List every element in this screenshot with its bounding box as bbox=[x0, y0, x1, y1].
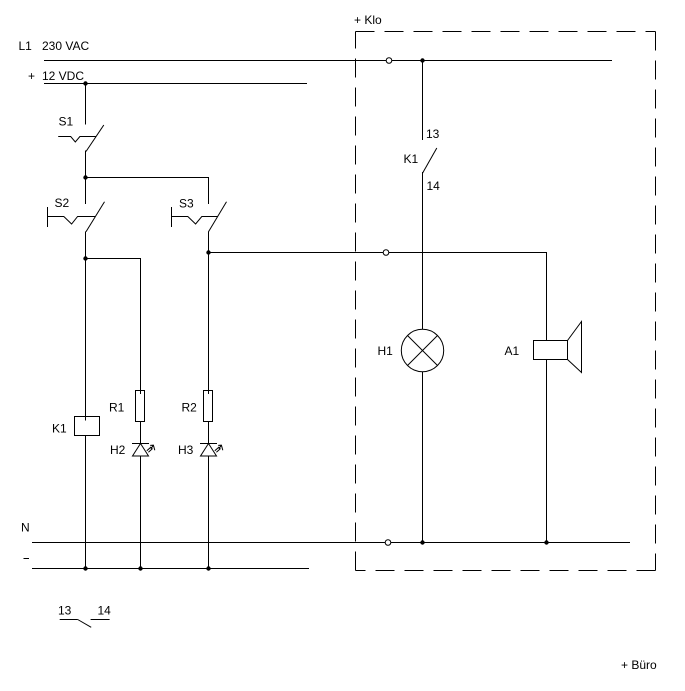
svg-text:A1: A1 bbox=[505, 344, 520, 358]
terminal circle on N in box bbox=[385, 540, 391, 546]
junction on minus bus at H2 bbox=[138, 566, 142, 570]
wire S3 junction to speaker A1 feed bbox=[209, 253, 547, 342]
junction on minus bus at H3 bbox=[206, 566, 210, 570]
terminal circle on feed wire bbox=[383, 250, 389, 256]
svg-text:+ Büro: + Büro bbox=[621, 658, 657, 672]
wire minus bus bbox=[32, 568, 309, 570]
wire K1 contact to lamp H1 bbox=[422, 172, 424, 330]
junction below S3 bbox=[206, 250, 210, 254]
svg-text:H1: H1 bbox=[378, 344, 394, 358]
wire +12VDC bus bbox=[44, 83, 307, 85]
svg-text:+: + bbox=[28, 69, 35, 83]
switch S1 (latching) bbox=[58, 115, 104, 152]
wire R1 to H2 bbox=[140, 422, 142, 444]
svg-text:K1: K1 bbox=[404, 152, 419, 166]
svg-text:14: 14 bbox=[98, 604, 112, 618]
svg-text:14: 14 bbox=[427, 179, 441, 193]
resistor R1 bbox=[109, 391, 145, 422]
wire S3 bottom down to R2 bbox=[208, 232, 210, 395]
svg-text:H2: H2 bbox=[110, 443, 126, 457]
junction on minus bus at K1 bbox=[83, 566, 87, 570]
buzzer A1 bbox=[505, 322, 582, 373]
svg-text:13: 13 bbox=[426, 127, 440, 141]
junction on N at A1 bbox=[544, 540, 548, 544]
wire H1 to N bus bbox=[422, 372, 424, 543]
relay contact K1 13-14 bbox=[404, 148, 437, 173]
junction below S1 bbox=[83, 175, 87, 179]
resistor R2 bbox=[182, 391, 213, 422]
wire N bus bbox=[32, 542, 630, 544]
svg-text:230 VAC: 230 VAC bbox=[42, 39, 89, 53]
terminal circle on L1 in box bbox=[386, 58, 392, 64]
switch S3 (latching) bbox=[172, 197, 227, 232]
svg-text:H3: H3 bbox=[178, 443, 194, 457]
junction on N at H1 bbox=[420, 540, 424, 544]
svg-text:L1: L1 bbox=[19, 39, 33, 53]
wire A1 to N bus bbox=[546, 360, 548, 543]
junction on +12VDC at S1 drop bbox=[83, 81, 87, 85]
wire H3 to minus bus bbox=[208, 456, 210, 569]
svg-text:13: 13 bbox=[58, 604, 72, 618]
LED H2 bbox=[110, 443, 155, 457]
lamp H1 bbox=[378, 329, 444, 371]
wire from +12VDC down to S1 bbox=[85, 84, 87, 125]
wire L1 down to K1 contact bbox=[422, 61, 424, 141]
svg-text:R1: R1 bbox=[109, 401, 125, 415]
svg-text:S3: S3 bbox=[179, 197, 194, 211]
switch S2 (latching) bbox=[48, 196, 105, 232]
wire L1 230VAC bus bbox=[44, 60, 612, 62]
svg-text:+ Klo: + Klo bbox=[354, 13, 382, 27]
node L1 label bbox=[19, 39, 90, 53]
wire K1 coil to minus bus bbox=[85, 436, 87, 569]
wire R2 to H3 bbox=[208, 422, 210, 444]
svg-text:K1: K1 bbox=[52, 422, 67, 436]
svg-text:R2: R2 bbox=[182, 401, 198, 415]
svg-text:12 VDC: 12 VDC bbox=[42, 69, 84, 83]
contact cross-reference 13-14 bbox=[58, 604, 111, 628]
node +12VDC label bbox=[28, 69, 84, 83]
junction below S2 bbox=[83, 256, 87, 260]
wire S2 bottom down to K1 coil bbox=[85, 232, 87, 421]
node minus label bbox=[24, 558, 30, 560]
svg-text:N: N bbox=[21, 521, 30, 535]
svg-text:S2: S2 bbox=[55, 196, 70, 210]
svg-text:S1: S1 bbox=[59, 115, 74, 129]
wire S2 junction to R1 bbox=[86, 259, 141, 395]
wire H2 to minus bus bbox=[140, 456, 142, 569]
junction on L1 at K1 contact drop bbox=[420, 58, 424, 62]
wire S1 bottom to branch bbox=[85, 151, 87, 205]
LED H3 bbox=[178, 443, 223, 457]
relay coil K1 bbox=[52, 417, 100, 436]
dashed enclosure Klo bbox=[356, 32, 656, 571]
wire branch to S3 bbox=[86, 178, 209, 205]
